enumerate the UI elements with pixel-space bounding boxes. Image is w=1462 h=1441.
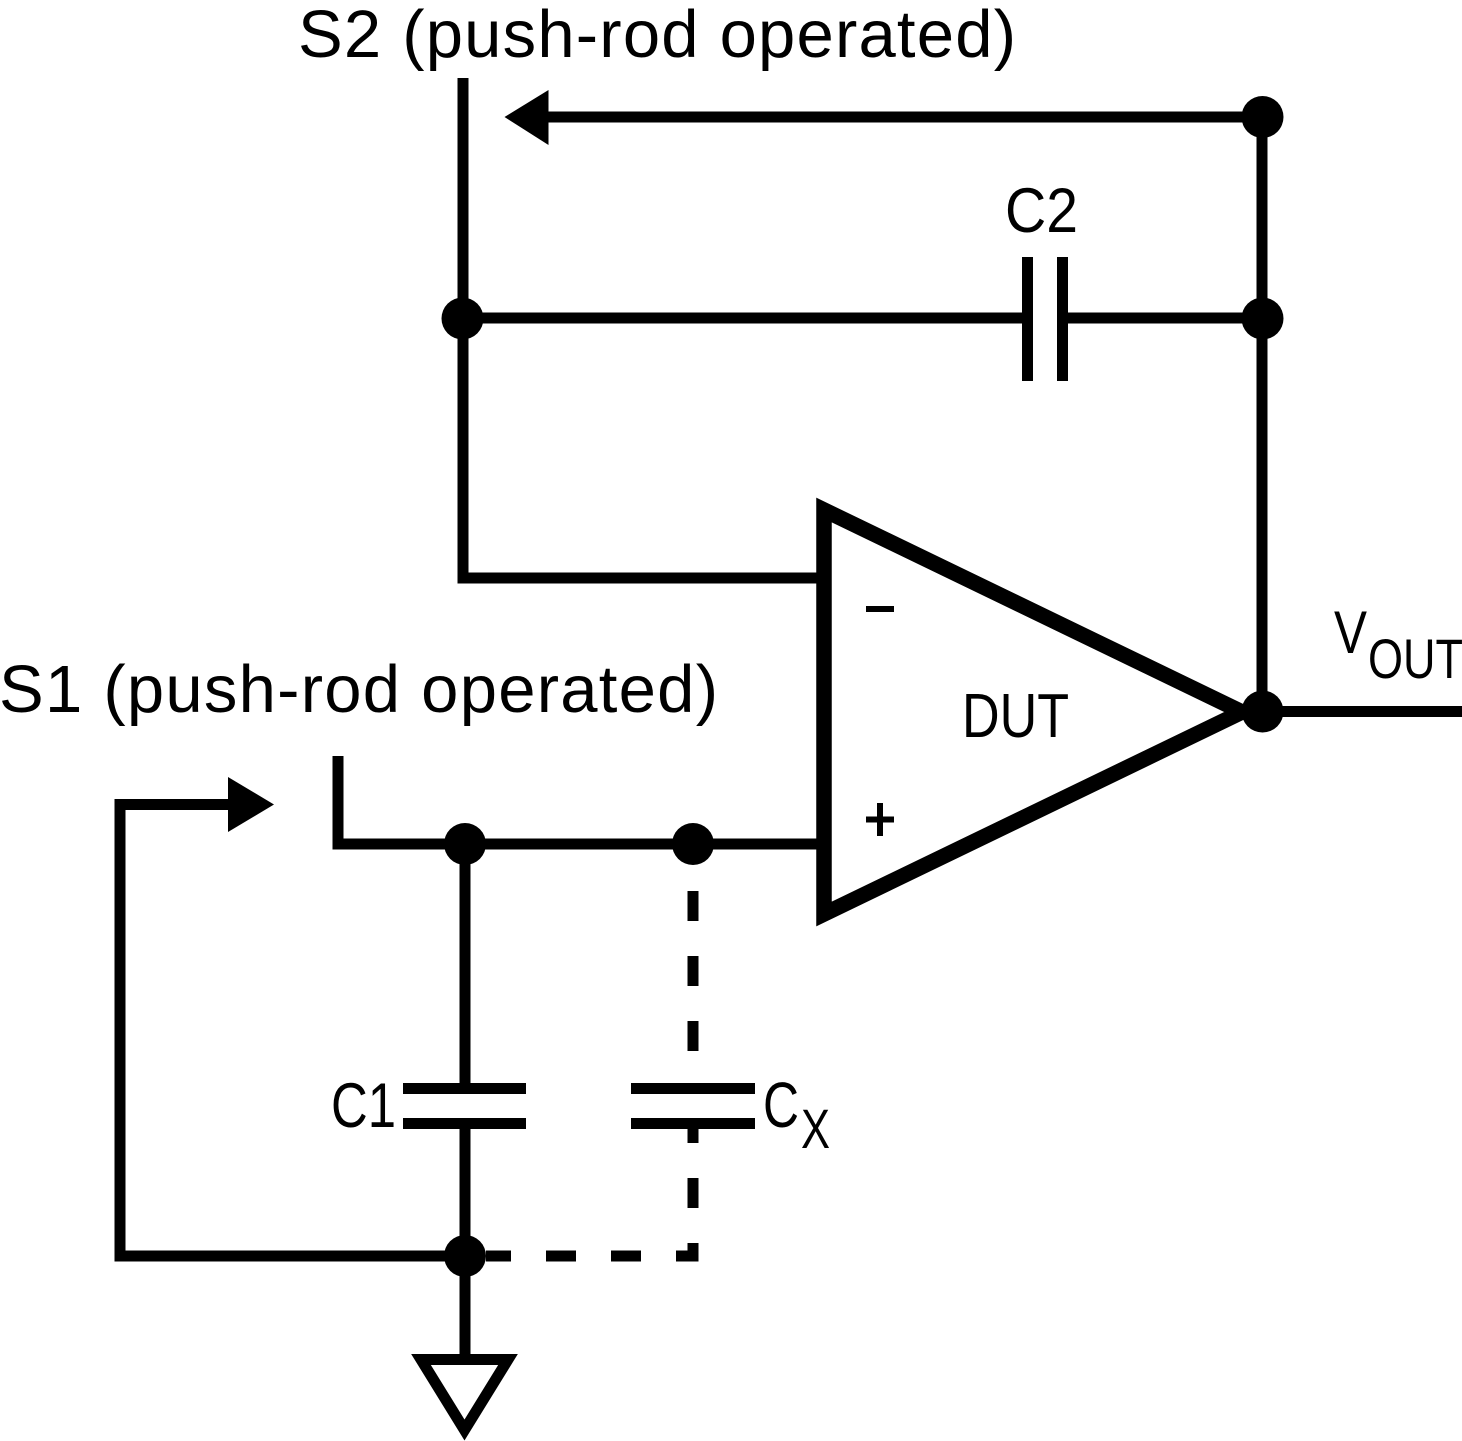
node: C1 junction on input wire — [444, 823, 486, 865]
svg-text:S1 (push-rod operated): S1 (push-rod operated) — [0, 652, 718, 727]
wire: C1 upper lead — [460, 844, 471, 1083]
node: CX junction on input wire — [672, 823, 714, 865]
capacitor CX — [631, 1083, 755, 1094]
svg-text:C1: C1 — [331, 1071, 396, 1141]
svg-text:V: V — [1334, 599, 1367, 666]
svg-text:S2 (push-rod operated): S2 (push-rod operated) — [298, 0, 1016, 72]
push-rod arrow for S1 with loop wire to ground node — [120, 805, 465, 1257]
svg-text:OUT: OUT — [1368, 627, 1462, 690]
node: top right corner — [1242, 96, 1284, 138]
wire: S1 switch pole and non-inverting input feed — [338, 756, 818, 844]
node: output junction at op-amp apex — [1242, 691, 1284, 733]
node: C2 left junction — [442, 298, 484, 340]
svg-text:X: X — [801, 1097, 830, 1160]
wire: S2 pole vertical and inverting-input feed — [463, 78, 818, 578]
push-rod arrow for S2 (points left at pole) — [543, 112, 1262, 123]
wire: right vertical from top node to output node — [1257, 117, 1268, 712]
wire: CX dashed lower lead and return to ground node — [486, 1129, 693, 1256]
wire: ground stem — [460, 1256, 471, 1354]
svg-text:C: C — [763, 1069, 799, 1141]
wire: C2 branch right segment — [1068, 313, 1262, 324]
capacitor C2 — [1022, 257, 1033, 381]
op-amp DUT — [824, 510, 1242, 914]
node: ground junction — [444, 1235, 486, 1277]
capacitor C1 — [403, 1083, 526, 1094]
svg-text:C2: C2 — [1005, 176, 1078, 246]
svg-text:DUT: DUT — [962, 682, 1069, 751]
wire: C2 branch left segment — [463, 313, 1022, 324]
ground — [421, 1360, 508, 1431]
wire: C1 lower lead — [460, 1129, 471, 1256]
plus sign (non-inverting input) — [866, 817, 894, 823]
minus sign (inverting input) — [866, 606, 894, 612]
node: C2 right junction — [1242, 298, 1284, 340]
wire: CX dashed upper lead — [688, 891, 699, 1083]
wire: output to right edge — [1262, 706, 1462, 717]
